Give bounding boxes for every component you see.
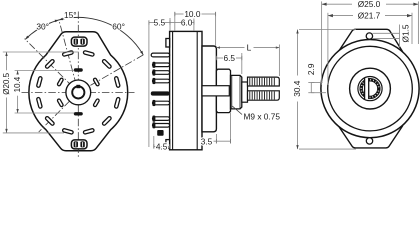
arrows right view bbox=[296, 3, 418, 150]
rear view: knurled shaft end bbox=[361, 80, 379, 98]
radial 105deg (15deg line) bbox=[59, 19, 76, 84]
radial 135deg (30deg line) bbox=[25, 39, 73, 87]
rear view: body circle O25 bbox=[321, 40, 419, 138]
side view: shaft neck bbox=[242, 82, 248, 102]
svg-text:5.5: 5.5 bbox=[154, 17, 166, 27]
svg-text:Ø21.7: Ø21.7 bbox=[358, 11, 381, 21]
dim O21.7 bbox=[327, 13, 329, 85]
radial 30deg (60deg line) bbox=[90, 55, 143, 86]
rear view: top mounting ear bbox=[339, 29, 403, 51]
terminal slot at 195 deg bbox=[36, 97, 42, 108]
terminal slot at 15 deg bbox=[114, 76, 120, 87]
rear view: ear hole bottom bbox=[366, 138, 372, 144]
side view: lug tip extension line bbox=[148, 23, 150, 148]
solid index slot top bbox=[74, 68, 83, 71]
dim 30.4 bbox=[299, 29, 356, 31]
dim lines middle view bbox=[149, 12, 280, 148]
M9 leader and label bbox=[232, 106, 242, 114]
dimension O20.5 line bbox=[6, 52, 8, 70]
side view: rotor hub through flange bbox=[202, 86, 229, 96]
solder lug at y=72.5 bbox=[153, 71, 170, 75]
terminal slot at 45 deg bbox=[102, 59, 112, 69]
bottom stub lug bbox=[157, 130, 163, 136]
svg-text:30°: 30° bbox=[36, 22, 49, 32]
svg-text:4.5: 4.5 bbox=[156, 141, 168, 151]
svg-text:2.9: 2.9 bbox=[306, 63, 316, 75]
solder lug at y=125.3 bbox=[153, 124, 170, 128]
side view: knurled shaft upper half bbox=[248, 77, 280, 86]
rear view: circle O21.7 bbox=[328, 46, 413, 131]
inner slot at 330 deg bbox=[93, 98, 100, 107]
svg-text:3.5: 3.5 bbox=[201, 136, 213, 146]
terminal slot at 285 deg bbox=[83, 128, 94, 134]
svg-text:L: L bbox=[247, 42, 252, 52]
svg-text:60°: 60° bbox=[112, 22, 125, 32]
solid index slot bottom bbox=[74, 112, 83, 115]
solder lug at y=64.8 bbox=[153, 63, 170, 67]
dim 2.9 bbox=[311, 82, 322, 84]
terminal slot at 225 deg bbox=[45, 116, 55, 126]
side view: body wafer stack bbox=[170, 31, 202, 149]
top locating tab bbox=[71, 37, 87, 46]
dimension O20.5 extension lines bbox=[3, 52, 79, 133]
terminal slot at 135 deg bbox=[45, 59, 55, 69]
bottom locating tab bbox=[71, 140, 87, 149]
rear view: bottom mounting ear bbox=[339, 126, 403, 148]
solder lug at y=103 bbox=[153, 101, 170, 105]
dimension 10.4 line bbox=[17, 71, 19, 74]
arrows for O20.5 and 10.4 bbox=[5, 52, 18, 133]
terminal slot at 345 deg bbox=[114, 97, 120, 108]
svg-text:M9 x 0.75: M9 x 0.75 bbox=[244, 112, 281, 122]
arrows middle view bbox=[216, 46, 279, 48]
inner slot at 210 deg bbox=[57, 98, 64, 107]
side view: knurled shaft lower half bbox=[248, 91, 280, 100]
terminal slot at 75 deg bbox=[83, 50, 94, 56]
terminal slot at 165 deg bbox=[36, 76, 42, 87]
svg-text:15°: 15° bbox=[64, 10, 77, 20]
svg-text:Ø1.5: Ø1.5 bbox=[400, 24, 410, 42]
svg-text:Ø20.5: Ø20.5 bbox=[2, 72, 11, 94]
front view centerlines (dash-dot) bbox=[22, 12, 144, 158]
terminal slot at 315 deg bbox=[102, 116, 112, 126]
knurl lines bbox=[250, 78, 274, 100]
solder lug at y=55 bbox=[151, 53, 169, 57]
rear view: ear hole top bbox=[366, 33, 372, 39]
side view: bushing collar bbox=[216, 69, 230, 112]
svg-text:10.4: 10.4 bbox=[13, 76, 22, 92]
svg-text:Ø25.0: Ø25.0 bbox=[358, 0, 381, 9]
side view: top tab bbox=[166, 39, 170, 48]
rear view: shaft slot bbox=[365, 78, 369, 99]
bushing outer circle bbox=[66, 80, 91, 105]
radial 225deg bbox=[39, 101, 70, 132]
bushing key notch bbox=[76, 85, 80, 88]
rotary switch technical drawing bbox=[0, 0, 420, 159]
svg-text:10.0: 10.0 bbox=[184, 9, 201, 19]
side view: bottom tab bbox=[166, 140, 170, 149]
dimension 10.4 extension lines bbox=[15, 70, 75, 72]
svg-text:6.5: 6.5 bbox=[224, 53, 236, 63]
front view: switch body outline bbox=[29, 32, 128, 151]
bushing inner circle bbox=[72, 86, 84, 98]
side view: threaded bushing M9 bbox=[231, 75, 242, 109]
dim O1.5 leaders bbox=[373, 32, 400, 34]
dim O25.0 bbox=[298, 1, 419, 149]
inner slot at 150 deg bbox=[57, 78, 64, 87]
terminal slot at 255 deg bbox=[62, 128, 73, 134]
solder lug at y=118.6 bbox=[153, 117, 170, 121]
arc arrowheads bbox=[25, 36, 29, 40]
solder lug at y=81 bbox=[153, 79, 170, 83]
side view: mounting flange bbox=[202, 46, 216, 132]
terminal slot at 105 deg bbox=[62, 50, 73, 56]
svg-text:30.4: 30.4 bbox=[292, 80, 302, 97]
rear view: center boss bbox=[350, 68, 391, 109]
inner slot at 30 deg bbox=[93, 78, 100, 87]
solder lug at y=93.5 bbox=[151, 91, 170, 95]
angle dimension arc bbox=[25, 17, 143, 54]
